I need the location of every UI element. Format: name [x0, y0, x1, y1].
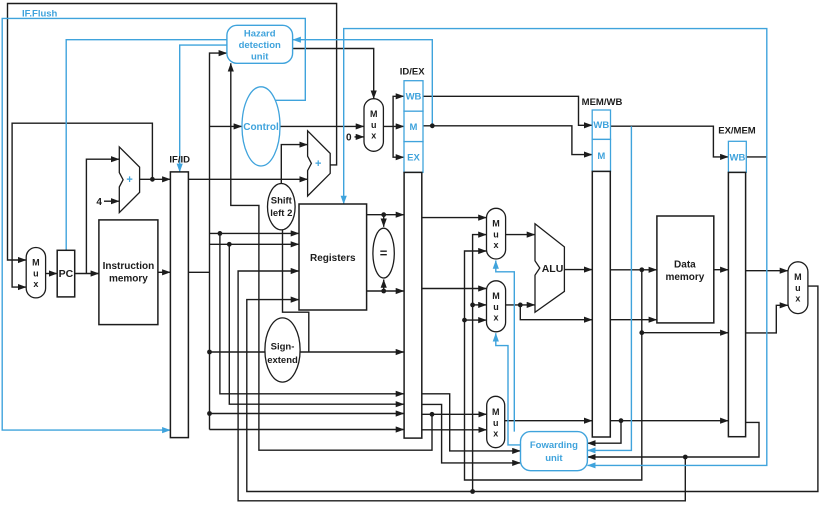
wire instruction bus vertical up to Hazard detection unit [210, 53, 227, 429]
instruction memory [99, 220, 158, 325]
wire ID/EX read data 2 to ALU mux B [422, 288, 487, 290]
wire write-back RegWrite loop to Registers [344, 29, 767, 204]
wire branch-target feedback (adder2 out, around top frame, to PC mux) [8, 4, 337, 261]
junction forward B input3 [462, 318, 467, 323]
wire PC up to adder1 [86, 159, 119, 273]
wire instruction [20-16] into ID/EX [210, 413, 405, 415]
wire MEM/WB ALU result to Data memory address [611, 269, 657, 271]
wire constant 0 into zero mux [355, 136, 365, 138]
wire instruction to Sign-extend [210, 351, 266, 353]
junction ID/EX.MemRead tap [430, 123, 435, 128]
mux PC source [26, 248, 45, 298]
svg-text:M: M [492, 291, 500, 301]
pipeline register MEM/WB M box [592, 139, 610, 171]
wire EX/MEM RegWrite down to Fowarding unit [587, 157, 766, 466]
wire EX/MEM ALU result to final mux input 2 [746, 305, 788, 333]
svg-text:IF.Flush: IF.Flush [22, 9, 58, 20]
svg-text:M: M [492, 407, 500, 417]
wire EX/MEM WB to write-back control loop [746, 156, 767, 158]
pipeline register ID/EX body [404, 172, 422, 438]
junction instr 20-16 tap [207, 411, 212, 416]
wire instruction [15-11] into ID/EX [210, 429, 405, 431]
wire control mux output to ID/EX EX [393, 126, 404, 157]
svg-text:u: u [795, 283, 801, 293]
mux ALU input A [487, 208, 506, 259]
svg-text:left 2: left 2 [270, 208, 292, 219]
wire Sign-extend output to ID/EX [300, 351, 404, 353]
wire MEM/WB Rd to EX/MEM [611, 420, 729, 422]
wire MEM/WB store data to Data memory write input [611, 319, 657, 321]
wire Control output to zero mux [280, 125, 364, 127]
wire ForwardB from Fowarding unit to mux B [496, 333, 521, 445]
mux write-back [788, 262, 808, 314]
wire write-back data wrap-around from final mux to Registers [247, 286, 818, 491]
wire ID/EX.RegisterRs to Fowarding unit [422, 394, 521, 451]
control unit [242, 87, 280, 166]
wire Sign-extend output up to Shift left 2 [283, 230, 309, 352]
svg-text:M: M [492, 219, 500, 229]
svg-text:Sign-: Sign- [271, 341, 295, 352]
mux ALU input B [487, 281, 506, 332]
svg-text:PC: PC [59, 268, 74, 280]
ALU [535, 224, 564, 312]
svg-text:Shift: Shift [271, 195, 293, 206]
svg-text:u: u [493, 302, 499, 312]
wire EX/MEM data to final mux input 1 [746, 270, 788, 272]
svg-text:WB: WB [593, 120, 609, 131]
pipeline register ID/EX EX box [404, 142, 423, 173]
svg-text:IF/ID: IF/ID [169, 155, 190, 166]
svg-text:Fowarding: Fowarding [530, 440, 578, 451]
svg-text:+: + [126, 174, 132, 186]
wire constant 4 into adder1 [104, 200, 119, 202]
junction Rt to hazard feedback [430, 412, 435, 417]
svg-text:WB: WB [729, 152, 745, 163]
pipeline register ID/EX M box [404, 111, 423, 141]
svg-text:u: u [33, 269, 39, 279]
wire instruction to Control [210, 125, 242, 127]
wire ForwardA from Fowarding unit to mux A [496, 261, 515, 432]
svg-text:u: u [371, 120, 377, 130]
junction write-back forward tap [470, 489, 475, 494]
svg-text:Control: Control [243, 122, 279, 133]
wire IF/IDWrite from Hazard detection unit to IF/ID [180, 45, 227, 172]
wire ID/EX.RegisterRt feedback to Hazard detection unit bottom [231, 63, 432, 450]
svg-text:M: M [794, 272, 802, 282]
wire ID/EX.MemRead tap to Hazard detection unit [293, 40, 433, 126]
wire Instruction memory to IF/ID [158, 271, 171, 273]
svg-text:unit: unit [251, 52, 269, 63]
junction PC+4 split [150, 177, 155, 182]
comparator equals [373, 228, 394, 278]
svg-text:u: u [493, 418, 499, 428]
junction Rt tap [227, 242, 232, 247]
svg-text:M: M [410, 122, 418, 133]
data memory [657, 216, 714, 323]
wire Hazard detection unit output to zero mux select [293, 49, 374, 99]
adder PC+4 [119, 147, 139, 213]
sign extend unit [265, 318, 300, 382]
junction sign-extend tap [207, 350, 212, 355]
wire Registers read data 2 to ID/EX [367, 290, 404, 292]
svg-text:M: M [597, 151, 605, 162]
pipeline register ID/EX WB box [404, 81, 423, 112]
junction ALU result bypass [639, 330, 644, 335]
wire ALU result to MEM/WB [564, 269, 592, 271]
wire read register 2 [210, 243, 300, 245]
svg-text:extend: extend [267, 355, 298, 366]
svg-text:detection: detection [239, 40, 281, 51]
svg-text:ALU: ALU [542, 263, 564, 275]
svg-text:x: x [33, 279, 38, 289]
wire Data memory output to EX/MEM [714, 269, 729, 271]
svg-text:M: M [32, 258, 40, 268]
svg-text:+: + [315, 158, 321, 170]
wire PC mux output to PC [46, 273, 58, 275]
junction EX/MEM Rd split [683, 455, 688, 460]
wire read register 1 [210, 232, 300, 234]
hazard detection unit [227, 25, 293, 63]
wire Rs tap down into ID/EX [220, 233, 404, 393]
wire forward path from write-back mux to mux A input 2 [473, 235, 487, 492]
wire forward path from MEM-stage ALU result to mux A input 3 [465, 251, 642, 480]
svg-text:unit: unit [545, 453, 563, 464]
svg-text:=: = [380, 246, 388, 261]
pipeline register IF/ID [170, 172, 188, 438]
wire ID/EX WB to MEM/WB WB [423, 96, 592, 125]
mux control zero [364, 99, 383, 152]
wire adder1 output to IF/ID [140, 178, 171, 180]
wire Shift left 2 to adder2 top input [281, 145, 307, 184]
junction forward B input2 [470, 303, 475, 308]
wire MEM/WB RegWrite down to Fowarding unit [587, 126, 631, 450]
wire ID/EX Rd to destination mux input 2 [422, 429, 487, 431]
forwarding unit [521, 432, 588, 471]
pipeline register EX/MEM body [728, 172, 745, 436]
pipeline register EX/MEM WB box [728, 141, 746, 172]
svg-text:memory: memory [665, 272, 704, 283]
wire EX/MEM Rd output to Fowarding unit [587, 422, 759, 457]
svg-text:x: x [795, 294, 800, 304]
svg-text:memory: memory [109, 274, 148, 285]
wire IF.Flush from Control around left edge to IF/ID [2, 18, 305, 430]
svg-text:x: x [371, 130, 376, 140]
shift left 2 unit [268, 184, 296, 230]
svg-text:EX/MEM: EX/MEM [718, 126, 756, 137]
wire write-register wrap-around from EX/MEM.Rd to Registers [238, 271, 685, 501]
junction Rs tap [218, 231, 223, 236]
wire PCWrite from Hazard detection unit to PC [66, 40, 227, 251]
wire read data 2 up into comparator [383, 280, 385, 292]
wire Registers read data 1 to ID/EX [367, 214, 404, 216]
wire mux B output to ALU [506, 304, 535, 306]
junction read data 1 to comparator [381, 212, 386, 217]
wire MEM/WB Rd branch to Fowarding unit [587, 421, 621, 444]
pipeline register MEM/WB body [592, 171, 610, 437]
register PC [57, 250, 74, 297]
wire ALU result bypass to EX/MEM [642, 332, 729, 334]
wire ID/EX M to MEM/WB M [423, 126, 592, 155]
mux destination register [487, 396, 505, 447]
svg-text:x: x [493, 428, 498, 438]
wire PC to Instruction memory [75, 273, 99, 275]
wire IF/ID instruction stub [188, 271, 209, 273]
svg-text:u: u [493, 230, 499, 240]
wire control mux output to ID/EX M [383, 125, 404, 127]
pipeline register MEM/WB WB box [592, 110, 610, 139]
junction read data 2 to comparator [381, 289, 386, 294]
svg-text:Data: Data [674, 260, 696, 271]
adder branch [308, 131, 331, 196]
svg-text:Registers: Registers [310, 253, 356, 264]
svg-text:x: x [493, 313, 498, 323]
junction ALU result split [639, 267, 644, 272]
svg-text:0: 0 [346, 133, 352, 144]
svg-text:ID/EX: ID/EX [400, 67, 425, 78]
wire ID/EX.RegisterRt to Fowarding unit [422, 404, 521, 463]
wire MEM/WB WB to EX/MEM WB [611, 126, 729, 157]
wire PC+4 feedback loop to PC mux [12, 123, 152, 287]
svg-text:MEM/WB: MEM/WB [582, 97, 623, 108]
wire forward branch to mux B input 3 [465, 319, 487, 321]
registers file [299, 204, 367, 310]
wire mux A output to ALU [506, 234, 535, 236]
wire read data 1 down into comparator [383, 215, 385, 227]
svg-text:4: 4 [96, 197, 102, 208]
junction store data split [518, 303, 523, 308]
svg-text:Instruction: Instruction [103, 261, 155, 272]
svg-text:Hazard: Hazard [244, 29, 276, 40]
svg-text:WB: WB [406, 91, 422, 102]
svg-text:EX: EX [407, 153, 420, 164]
wire Rt tap down into ID/EX [229, 244, 404, 404]
wire ID/EX read data 1 to ALU mux A [422, 217, 487, 219]
junction MEM/WB Rd split [619, 418, 624, 423]
svg-text:x: x [493, 240, 498, 250]
wire destination mux output to MEM/WB [505, 420, 593, 422]
wire store data to MEM/WB [520, 305, 592, 320]
svg-text:M: M [370, 109, 378, 119]
wire IF/ID PC+4 to adder2 bottom input [188, 178, 307, 180]
wire ID/EX Rt to destination mux input 1 [422, 413, 487, 415]
wire forward branch to mux B input 2 [473, 304, 487, 306]
wire control mux output to ID/EX WB [393, 96, 404, 126]
